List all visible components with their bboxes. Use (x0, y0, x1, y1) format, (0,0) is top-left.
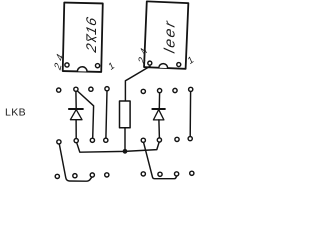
jumper middle c6 to bottom c8 (144, 142, 177, 179)
pin label 1 (right box) (186, 55, 197, 67)
cross stroke of 7 (88, 37, 96, 40)
junction dot (123, 149, 128, 154)
pin label 24 (left box) (53, 49, 67, 72)
relay module K1 (left box) (63, 3, 103, 72)
pin 24 circle (left box) (65, 63, 69, 67)
notch (right box) (159, 63, 168, 68)
wire top c2 to middle c3 (77, 91, 94, 139)
svg-text:1: 1 (186, 55, 196, 67)
terminal pins top row (57, 87, 193, 94)
bus wire (middle row) (76, 141, 159, 152)
diode D2 anode lead (158, 92, 160, 108)
svg-text:1: 1 (106, 61, 117, 73)
terminal pins bottom row (55, 171, 194, 178)
svg-text:LKB: LKB (5, 107, 26, 119)
jumper middle c1 to bottom c3 (59, 144, 92, 181)
diode D1 triangle (70, 110, 82, 120)
diode D1 lower lead (75, 120, 77, 139)
diode D1 cathode bar (69, 108, 83, 110)
pin 1 circle (left box) (95, 63, 99, 67)
pin 24 circle (right box) (148, 61, 152, 65)
pin 1 circle (right box) (177, 62, 181, 66)
wire K2 pin24 to resistor (125, 66, 150, 101)
value label 2716 (84, 15, 100, 55)
notch (left box) (77, 67, 87, 72)
diode D2 lower lead (158, 120, 161, 138)
wire top c4 to middle c4 (106, 91, 107, 139)
relay module K2 (right box) (144, 1, 188, 68)
diode D2 cathode bar (152, 108, 165, 110)
svg-text:2716: 2716 (84, 15, 100, 55)
diode D2 triangle (153, 110, 164, 120)
resistor R1 (120, 101, 131, 128)
pin label 1 (left box) (106, 61, 117, 73)
value label leer (162, 18, 179, 55)
pin label 24 (right box) (137, 44, 151, 67)
svg-text:leer: leer (162, 18, 179, 55)
wire resistor to junction (124, 128, 126, 152)
diode D1 anode lead (75, 91, 77, 109)
terminal pins middle row (57, 137, 192, 144)
wire top c9 to middle c9 (189, 91, 191, 137)
